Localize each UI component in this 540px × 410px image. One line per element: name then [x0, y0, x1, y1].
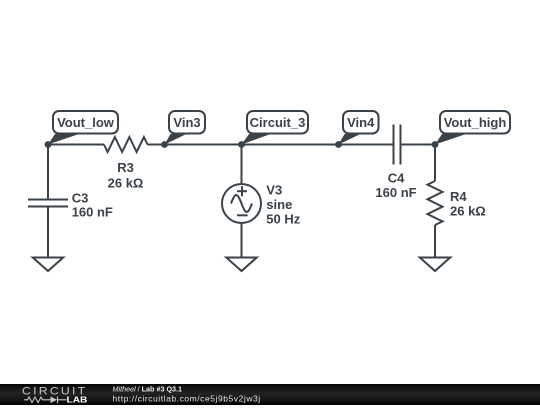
wire Circuit_3 node down to V3	[241, 145, 243, 185]
node Vin4 flag	[339, 111, 379, 145]
wire Vin4 node to C4 left plate	[339, 144, 394, 146]
capacitor C3	[28, 200, 68, 207]
junction Vout_low	[45, 141, 52, 148]
wire V3 to middle ground	[241, 223, 243, 258]
svg-text:http://circuitlab.com/ce5j9b5v: http://circuitlab.com/ce5j9b5v2jw3j	[113, 394, 261, 404]
footer bar	[0, 384, 540, 405]
wire C4 right plate to Vout_high node	[401, 144, 436, 146]
ground middle	[226, 258, 256, 272]
svg-text:R4: R4	[450, 189, 467, 204]
junction Vin4	[335, 141, 342, 148]
junction Vout_high	[432, 141, 439, 148]
voltage source V3	[222, 184, 261, 223]
svg-text:R3: R3	[117, 160, 134, 175]
svg-text:Vin4: Vin4	[347, 115, 375, 130]
wire Vout_low node down to C3	[47, 145, 49, 200]
svg-text:Circuit_3: Circuit_3	[250, 115, 306, 130]
wire R4 to right ground	[434, 225, 436, 258]
wire C3 to left ground	[47, 207, 49, 258]
ground right	[420, 258, 450, 272]
resistor R4	[428, 181, 443, 225]
svg-text:160 nF: 160 nF	[72, 204, 113, 219]
svg-text:Vin3: Vin3	[173, 115, 200, 130]
node Vout_high flag	[435, 111, 510, 145]
node Vout_low flag	[48, 111, 118, 145]
svg-text:Vout_high: Vout_high	[444, 115, 507, 130]
wire Vout_high node down to R4	[434, 145, 436, 182]
svg-text:26 kΩ: 26 kΩ	[108, 176, 144, 191]
svg-text:26 kΩ: 26 kΩ	[450, 204, 486, 219]
wire Vin3 to Circuit_3 node	[165, 144, 242, 146]
junction Vin3	[161, 141, 168, 148]
resistor R3	[104, 137, 148, 152]
svg-text:LAB: LAB	[67, 395, 88, 404]
capacitor C4	[394, 125, 401, 165]
CircuitLab logo resistor zigzag and diode	[24, 397, 67, 404]
node Vin3 flag	[165, 111, 206, 145]
svg-text:V3: V3	[266, 183, 282, 198]
wire Vout_low to R3 left lead	[48, 144, 104, 146]
svg-text:C3: C3	[72, 190, 89, 205]
svg-text:Vout_low: Vout_low	[57, 115, 115, 130]
node Circuit_3 flag	[242, 111, 309, 145]
wire Circuit_3 node to Vin4 node	[242, 144, 339, 146]
svg-text:50 Hz: 50 Hz	[266, 211, 300, 226]
junction Circuit_3	[238, 141, 245, 148]
svg-text:sine: sine	[266, 197, 292, 212]
ground left	[33, 258, 63, 272]
wire R3 right lead to Vin3 node	[148, 144, 165, 146]
svg-text:Mitheel / Lab #3 Q3.1: Mitheel / Lab #3 Q3.1	[113, 384, 183, 393]
svg-text:C4: C4	[388, 171, 405, 186]
svg-text:160 nF: 160 nF	[375, 185, 416, 200]
